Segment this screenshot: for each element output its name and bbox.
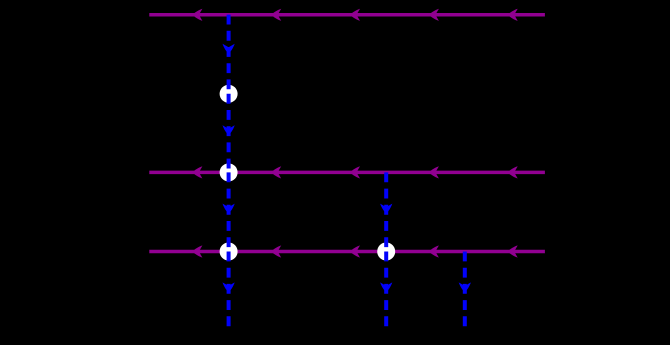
- vertex blob B1: [220, 85, 238, 103]
- arrowhead L2-a2: [271, 166, 281, 178]
- dashed boson line D3 (L3 to end): [463, 252, 467, 327]
- dashed boson line D1 segment d (L3 to end): [227, 252, 231, 327]
- arrowhead L3-a2: [271, 245, 281, 257]
- arrowhead L1-a2: [271, 9, 281, 21]
- dashed boson line D1 segment a (L1 to blob B1): [227, 15, 231, 94]
- arrowhead L2-a1: [192, 166, 202, 178]
- arrowhead L2-a3: [350, 166, 360, 178]
- vertex blob B3: [220, 243, 238, 261]
- arrowhead L1-a4: [429, 9, 439, 21]
- arrowhead L1-a5: [508, 9, 518, 21]
- arrowhead L3-a3: [350, 245, 360, 257]
- fermion line L1 (top): [149, 13, 545, 17]
- arrowhead L3-a5: [508, 245, 518, 257]
- arrowhead D1-a1: [223, 44, 235, 54]
- vertex blob B4: [377, 243, 395, 261]
- arrowhead D2-a1: [380, 204, 392, 214]
- arrowhead D2-a2: [380, 282, 392, 292]
- dashed boson line D1 segment b (blob B1 to L2): [227, 94, 231, 173]
- arrowhead L3-a1: [192, 245, 202, 257]
- arrowhead D1-a3: [223, 204, 235, 214]
- arrowhead D1-a2: [223, 125, 235, 135]
- dashed boson line D2 segment b (L3 to end): [384, 252, 388, 327]
- fermion line L2 (middle): [149, 171, 545, 175]
- arrowhead L2-a5: [508, 166, 518, 178]
- vertex blob B2: [220, 163, 238, 181]
- arrowhead L1-a3: [350, 9, 360, 21]
- arrowhead D3-a1: [459, 282, 471, 292]
- dashed boson line D2 segment a (L2 to blob B4): [384, 172, 388, 251]
- arrowhead L3-a4: [429, 245, 439, 257]
- fermion line L3 (bottom): [149, 250, 545, 254]
- arrowhead L1-a1: [192, 9, 202, 21]
- arrowhead D1-a4: [223, 282, 235, 292]
- arrowhead L2-a4: [429, 166, 439, 178]
- dashed boson line D1 segment c (L2 to L3): [227, 172, 231, 251]
